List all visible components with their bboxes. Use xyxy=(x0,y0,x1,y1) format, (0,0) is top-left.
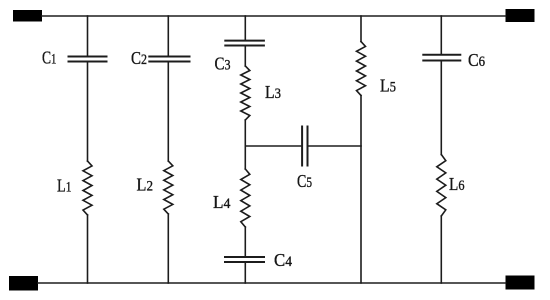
svg-text:C4: C4 xyxy=(274,250,293,270)
wire branch1 middle segment xyxy=(87,62,89,162)
wire branch5 middle segment xyxy=(440,61,442,155)
wire branch3 bottom segment xyxy=(244,262,246,283)
svg-text:L1: L1 xyxy=(57,175,72,195)
inductor L1 xyxy=(83,161,92,215)
capacitor C1 xyxy=(69,57,107,62)
wire branch5 bottom segment xyxy=(440,216,442,283)
wire branch3 top segment xyxy=(244,16,246,41)
svg-text:C5: C5 xyxy=(297,171,312,191)
wire branch4 top segment xyxy=(360,16,362,42)
svg-text:C1: C1 xyxy=(42,47,57,67)
wire C5 right plate to node B xyxy=(308,145,362,147)
port terminal top-left xyxy=(13,10,42,22)
wire branch4 bottom segment (node B junction at y=146) xyxy=(360,96,362,284)
wire node A to C5 left plate xyxy=(245,145,302,147)
inductor L6 xyxy=(437,155,446,217)
wire branch2 middle segment xyxy=(167,62,169,162)
port terminal bottom-left xyxy=(9,276,38,291)
svg-text:L6: L6 xyxy=(449,174,465,194)
capacitor C4 xyxy=(225,257,264,262)
wire branch5 top segment xyxy=(440,16,442,55)
wire C3 to L3 segment xyxy=(244,46,246,67)
inductor L3 xyxy=(241,66,250,120)
capacitor C2 xyxy=(149,57,189,62)
svg-text:L3: L3 xyxy=(265,82,281,102)
port terminal bottom-right xyxy=(506,276,535,290)
port terminal top-right xyxy=(506,9,535,22)
wire top rail xyxy=(42,15,506,17)
wire L4 to C4 segment xyxy=(244,227,246,257)
wire branch1 bottom segment xyxy=(87,215,89,283)
wire branch1 top segment xyxy=(87,16,89,57)
capacitor C6 xyxy=(423,55,460,61)
wire L3 to L4 segment (node A junction at y=146) xyxy=(244,120,246,169)
wire branch2 top segment xyxy=(167,16,169,57)
svg-text:C2: C2 xyxy=(131,48,147,68)
capacitor C3 xyxy=(225,41,264,46)
svg-text:L2: L2 xyxy=(137,174,154,194)
capacitor C5 xyxy=(302,127,307,166)
svg-text:L5: L5 xyxy=(380,76,396,96)
wire bottom rail xyxy=(38,282,506,284)
inductor L2 xyxy=(164,161,173,214)
inductor L5 xyxy=(357,42,366,96)
svg-text:C6: C6 xyxy=(468,50,485,70)
svg-text:C3: C3 xyxy=(215,54,231,74)
inductor L4 xyxy=(241,169,250,227)
svg-text:L4: L4 xyxy=(213,192,231,212)
wire branch2 bottom segment xyxy=(167,214,169,283)
